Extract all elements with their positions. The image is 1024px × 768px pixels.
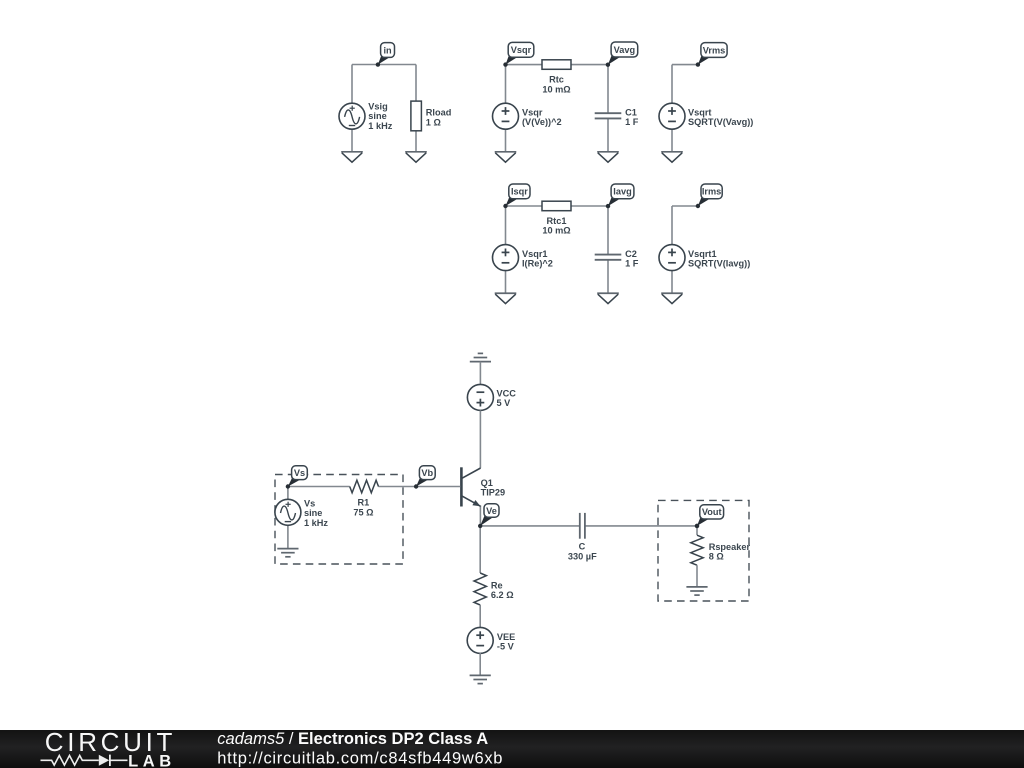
svg-text:10 mΩ: 10 mΩ (542, 226, 570, 236)
svg-text:C: C (579, 542, 586, 552)
svg-text:1 kHz: 1 kHz (304, 518, 328, 528)
svg-text:SQRT(V(Vavg)): SQRT(V(Vavg)) (688, 117, 753, 127)
svg-text:C1: C1 (625, 107, 637, 117)
svg-text:I(Re)^2: I(Re)^2 (522, 259, 553, 269)
svg-text:Iavg: Iavg (613, 187, 631, 197)
svg-text:5 V: 5 V (497, 398, 512, 408)
svg-text:Vb: Vb (421, 468, 433, 478)
svg-text:sine: sine (368, 111, 386, 121)
svg-text:Re: Re (491, 581, 503, 591)
svg-text:Vsqrt: Vsqrt (688, 107, 712, 117)
svg-text:(V(Ve))^2: (V(Ve))^2 (522, 117, 562, 127)
svg-text:Vsqr1: Vsqr1 (522, 249, 548, 259)
svg-text:http://circuitlab.com/c84sfb44: http://circuitlab.com/c84sfb449w6xb (217, 749, 503, 767)
svg-text:TIP29: TIP29 (481, 488, 506, 498)
svg-text:sine: sine (304, 508, 322, 518)
svg-text:R1: R1 (358, 498, 370, 508)
svg-text:Q1: Q1 (481, 478, 493, 488)
svg-text:in: in (383, 45, 392, 55)
svg-text:VCC: VCC (497, 388, 517, 398)
svg-text:Vrms: Vrms (703, 45, 725, 55)
svg-text:C2: C2 (625, 249, 637, 259)
svg-text:Rspeaker: Rspeaker (709, 542, 751, 552)
svg-text:Rload: Rload (426, 108, 452, 118)
svg-text:VEE: VEE (497, 632, 515, 642)
svg-text:Irms: Irms (702, 187, 721, 197)
svg-text:1 kHz: 1 kHz (368, 121, 392, 131)
svg-text:Vsqr: Vsqr (522, 107, 543, 117)
svg-text:Vs: Vs (304, 498, 315, 508)
svg-text:Vsqrt1: Vsqrt1 (688, 249, 717, 259)
svg-text:SQRT(V(Iavg)): SQRT(V(Iavg)) (688, 259, 750, 269)
svg-text:10 mΩ: 10 mΩ (542, 84, 570, 94)
svg-text:1 F: 1 F (625, 117, 639, 127)
svg-text:Vs: Vs (294, 468, 305, 478)
svg-text:Rtc: Rtc (549, 75, 564, 85)
svg-text:Vsig: Vsig (368, 102, 387, 112)
svg-text:LAB: LAB (128, 752, 176, 768)
svg-text:cadams5 / Electronics DP2 Clas: cadams5 / Electronics DP2 Class A (217, 730, 488, 748)
svg-text:Ve: Ve (486, 506, 497, 516)
svg-text:Vsqr: Vsqr (511, 45, 532, 55)
svg-text:8 Ω: 8 Ω (709, 552, 724, 562)
svg-text:Isqr: Isqr (511, 187, 528, 197)
svg-text:-5 V: -5 V (497, 642, 515, 652)
svg-text:Vout: Vout (702, 507, 722, 517)
svg-text:75 Ω: 75 Ω (353, 507, 373, 517)
svg-text:1 Ω: 1 Ω (426, 117, 441, 127)
svg-text:6.2 Ω: 6.2 Ω (491, 590, 514, 600)
svg-text:1 F: 1 F (625, 259, 639, 269)
svg-text:Vavg: Vavg (614, 45, 635, 55)
svg-text:Rtc1: Rtc1 (547, 216, 567, 226)
svg-text:330 µF: 330 µF (568, 551, 597, 561)
